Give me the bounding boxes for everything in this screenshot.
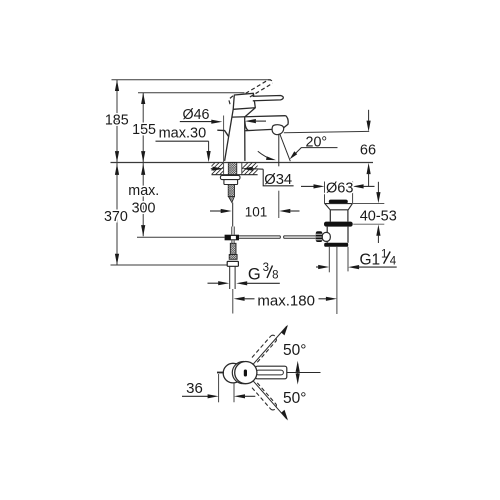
arrow 185 down (115, 151, 119, 162)
faucet body left edge (225, 109, 234, 161)
max30 arrow down (207, 151, 211, 162)
ref line hose end (370 level) (111, 264, 228, 266)
D63 arrow right (353, 184, 375, 188)
rod clamp block (225, 235, 239, 241)
washer under deck (220, 175, 240, 179)
swing diagonal lower (246, 373, 287, 420)
raised lever (dashed) (229, 80, 273, 105)
66 dim line bottom (367, 163, 371, 186)
D63 arrow left (301, 184, 325, 188)
svg-text:max.: max. (128, 183, 159, 199)
svg-text:370: 370 (104, 209, 128, 225)
tailpipe centerline (336, 247, 338, 314)
body hook detail (217, 130, 229, 137)
svg-text:36: 36 (186, 380, 203, 397)
aerator (272, 125, 284, 135)
40-53 arrow top (376, 182, 380, 204)
101 arrow left (210, 209, 232, 213)
angle arc arrow (258, 151, 276, 160)
swing span arrow vertical (296, 361, 300, 385)
svg-text:Ø34: Ø34 (264, 172, 292, 188)
101 arrow right (279, 209, 299, 213)
svg-text:185: 185 (105, 113, 129, 129)
D34 arrow left (211, 167, 224, 171)
40-53 arrow bottom (376, 225, 380, 244)
arrow 155 down (141, 151, 145, 162)
deck line (111, 162, 374, 164)
svg-text:4: 4 (390, 256, 397, 268)
threaded shank through deck (228, 163, 237, 175)
G1 1/4 arrow right with underline (348, 265, 397, 269)
drain upper body (330, 210, 348, 222)
arrow 185 up (115, 80, 119, 91)
dim line 185/370 (116, 80, 118, 265)
arrow 155 up (141, 93, 145, 104)
svg-text:50°: 50° (283, 390, 306, 407)
body circle (top view) (223, 363, 243, 383)
drain locknut (324, 222, 353, 227)
svg-text:max.180: max.180 (257, 293, 315, 310)
lever slot (256, 370, 283, 375)
lever top view (255, 366, 286, 379)
svg-text:Ø46: Ø46 (182, 107, 209, 123)
swing diagonal upper (246, 326, 287, 373)
drain bottom collar (324, 243, 348, 247)
D46 arrow left (211, 120, 222, 124)
knob coupling (322, 232, 330, 241)
deck hatching left (203, 163, 232, 175)
36 ext line left (218, 374, 220, 402)
D63 ext line left (324, 182, 326, 204)
36 ext line right (233, 383, 235, 403)
horizontal rod to drain (tube) (239, 236, 316, 238)
centerline right (287, 372, 321, 374)
G3/8 nut (227, 261, 238, 266)
tap hole right edge (241, 163, 243, 175)
D46 underline (180, 121, 212, 123)
max30 leader drop (208, 141, 210, 152)
pull rod double section (232, 227, 234, 235)
svg-text:300: 300 (132, 201, 156, 217)
dim line 155/max300 (142, 93, 144, 237)
mounting nut (224, 180, 238, 185)
arrow max300 up (141, 164, 145, 175)
G1 1/4 arrow left (316, 265, 329, 269)
svg-text:G1: G1 (360, 251, 381, 268)
pin left (217, 372, 224, 374)
36 arrow right (234, 394, 255, 398)
hub pin mark (244, 370, 247, 377)
svg-text:8: 8 (272, 269, 278, 281)
tap hole left edge / ext line (223, 116, 225, 175)
deck bottom line (212, 174, 258, 176)
ref line 155 level (138, 92, 245, 94)
svg-text:40-53: 40-53 (360, 208, 397, 224)
spout top edge (232, 116, 286, 117)
deck hatching right (236, 163, 265, 175)
20deg leader (290, 148, 338, 160)
pull rod upper (232, 203, 234, 227)
drain flange (329, 200, 348, 204)
66 dim line top (367, 110, 371, 132)
101 ext line right (278, 191, 280, 218)
hose neck below clamp (232, 240, 234, 243)
arrow 370 up (115, 164, 119, 175)
max180 arrow right (319, 297, 337, 301)
G3/8 arrow left (208, 281, 230, 285)
faucet lever cap (233, 93, 255, 109)
ref line rod (max300 level) (137, 236, 225, 238)
svg-text:20°: 20° (306, 134, 328, 150)
swing arrow upper (281, 325, 288, 336)
ghost lever lower (dashed) (252, 383, 277, 410)
D46 arrow right (245, 119, 266, 123)
stud taper tip (228, 197, 234, 203)
swing arrow lower (281, 410, 288, 421)
G3/8 arrow right with underline (236, 281, 280, 285)
D63 ext line right (352, 182, 354, 204)
66 ref line (spout level) (284, 131, 369, 132)
hub inner circle (232, 362, 254, 384)
hose threaded end (230, 243, 236, 254)
spout-body fillet (245, 122, 248, 131)
D34 arrow right (242, 167, 263, 171)
svg-text:101: 101 (245, 205, 268, 220)
svg-text:66: 66 (360, 142, 376, 158)
threaded stud (228, 185, 234, 197)
tailpipe edges ext (329, 247, 348, 272)
ref line top (185 level) (112, 79, 272, 81)
label G3/8 (248, 262, 279, 284)
svg-text:155: 155 (132, 122, 156, 138)
arrow max300 down (141, 225, 145, 236)
flow line vertical (278, 135, 280, 167)
faucet body right edge (245, 108, 256, 161)
ghost lever upper (dashed) (252, 335, 277, 362)
max30 underline (156, 140, 209, 142)
spout bottom edge (245, 129, 272, 130)
36 arrow left (182, 394, 219, 398)
D34 bracket (263, 169, 293, 186)
svg-text:max.30: max.30 (159, 126, 207, 142)
rod knob (316, 231, 323, 242)
faucet lever rod (horizontal) (253, 96, 284, 101)
svg-text:50°: 50° (283, 342, 306, 359)
spout right face (284, 116, 289, 128)
supply pipe (230, 266, 235, 289)
supply centerline ext (232, 289, 234, 314)
hub outer circle (235, 362, 257, 384)
40-53 ref line top (352, 203, 385, 205)
flow line 20deg (280, 135, 290, 162)
arrow 370 down (115, 254, 119, 265)
label G1 1/4 (360, 248, 397, 268)
svg-text:G: G (248, 265, 261, 283)
40-53 ref line bottom (353, 223, 384, 225)
drain lower body (327, 227, 348, 243)
svg-text:Ø63: Ø63 (326, 181, 353, 197)
max180 arrow left (234, 297, 255, 301)
svg-text:3: 3 (263, 262, 269, 274)
drain flange skirt (325, 204, 353, 210)
